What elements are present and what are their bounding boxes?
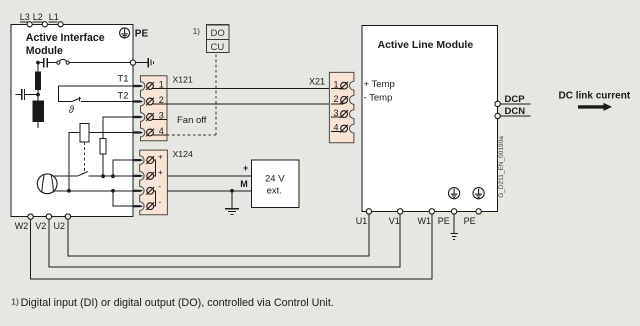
svg-text:3: 3 [159,110,164,120]
wire to earth [136,62,149,64]
thermal contact [72,97,81,102]
wire X124 + to 24V [167,175,251,177]
24V ext box [252,160,300,208]
wire [25,94,38,96]
svg-text:-: - [158,181,161,191]
svg-text:G_D211_EN_00190a: G_D211_EN_00190a [498,136,505,198]
choke L (filled) [35,71,41,90]
wire X121-2 to X21-2 [167,103,344,105]
ground under M [225,209,239,215]
node dot [230,189,234,193]
wire U phase [68,214,369,256]
X121 screw 2 [146,98,154,106]
Active Interface Module box [11,24,133,216]
svg-text:1: 1 [334,79,339,89]
dashed fan-off wire [167,53,216,136]
resistor R1 [100,138,106,154]
terminal W1 [429,209,434,214]
wire stub down [37,122,39,128]
wire T1 [59,86,133,102]
capacitor C1 [44,58,47,67]
wire stub left [16,94,21,96]
terminal PE2 [476,209,481,214]
terminal W2 [28,214,33,219]
svg-text:+ Temp: + Temp [364,79,395,90]
svg-text:M: M [240,179,248,189]
svg-text:U2: U2 [54,221,66,231]
svg-text:24 V: 24 V [265,174,285,185]
wire X124 pin1 branch [113,160,133,176]
wire X124 - to 24V M [167,190,251,192]
earth symbol 2 in ALM [473,188,484,199]
X121 screw 3 [146,113,154,121]
svg-text:+: + [158,167,163,177]
wire X124 pin4 branch [113,191,133,206]
terminal U2 [65,214,70,219]
svg-text:DO: DO [211,28,225,39]
svg-text:L1: L1 [49,12,59,22]
connector X124 block [140,150,168,215]
node dot [67,189,71,193]
wire [102,154,104,176]
wire pin4 row right [89,132,133,134]
fan motor M1 [37,174,57,194]
svg-text:-: - [158,196,161,206]
X121 arrows [133,85,143,134]
svg-text:PE: PE [464,216,476,226]
svg-text:3: 3 [334,108,339,118]
svg-text:DCP: DCP [505,94,526,105]
relay coil K1 [80,124,89,142]
svg-text:L3: L3 [20,12,30,22]
wire contact row [54,175,77,177]
X124 screw 4 [146,202,154,210]
wire pin3 row [103,117,133,138]
svg-text:Module: Module [26,45,63,57]
terminal L3 [20,21,29,23]
svg-text:+: + [158,151,163,161]
wire X121-1 to X21-1 [167,88,344,90]
svg-text:L2: L2 [33,12,43,22]
connector X121 block [141,76,168,141]
svg-text:2: 2 [334,94,339,104]
capacitor C2 [22,89,25,100]
wire [89,175,134,177]
svg-text:ext.: ext. [267,186,282,197]
node edge circle [130,60,135,65]
DCP terminal [495,101,500,106]
DCN terminal [495,113,500,118]
wire W phase [31,214,432,279]
svg-text:PE: PE [438,216,450,226]
X124 screw 1 [146,156,154,164]
wire V phase [49,214,400,267]
svg-text:1): 1) [193,27,200,36]
DC link arrow [578,103,612,111]
Active Line Module box [362,26,497,212]
node dot [111,174,115,178]
svg-text:T1: T1 [117,74,128,85]
svg-text:+: + [243,163,248,173]
wire fan lower row [54,190,133,192]
node junction top [36,61,40,65]
svg-text:Digital input (DI) or digital: Digital input (DI) or digital output (DO… [21,297,334,309]
terminal PE1 [451,209,456,214]
svg-text:DC link current: DC link current [559,90,631,101]
earth symbol 1 in ALM [449,188,460,199]
X121 screw 1 [146,82,154,90]
terminal L1 [49,21,58,23]
wire to edge [69,62,133,64]
svg-text:W1: W1 [418,216,432,226]
svg-text:W2: W2 [15,221,28,231]
svg-text:PE: PE [135,28,149,39]
PE symbol U-earth in circle [120,28,130,38]
svg-text:4: 4 [334,122,339,132]
dashed actuator link [83,142,85,173]
terminal V2 [46,214,51,219]
svg-text:4: 4 [159,126,164,136]
svg-text:V1: V1 [389,216,400,226]
terminal U1 [366,209,371,214]
node dot [111,189,115,193]
svg-text:Active Interface: Active Interface [26,32,105,44]
svg-text:U1: U1 [356,216,368,226]
node junction mid [36,93,40,97]
wire T2 [81,101,133,103]
wire [48,62,57,64]
X124 jumper 3-4 [154,191,156,206]
svg-text:X121: X121 [173,75,193,85]
svg-text:T2: T2 [117,90,128,101]
wire pin4 row left [69,133,80,191]
wire to ground [231,191,233,209]
resistor block (filled) [32,100,44,121]
X124 screw 3 [146,187,154,195]
svg-text:Fan off: Fan off [177,115,207,126]
wire PE to ground [453,214,455,233]
svg-text:- Temp: - Temp [364,93,393,104]
X124 arrows [133,159,143,207]
X124 screw 2 [146,172,154,180]
svg-text:1): 1) [11,296,19,306]
wire down from node [37,63,39,72]
node dot [101,174,105,178]
svg-text:ϑ: ϑ [69,105,75,116]
relay contact [77,172,88,177]
svg-text:Active Line Module: Active Line Module [378,39,474,51]
svg-text:DCN: DCN [505,106,526,117]
ground under PE [450,234,458,240]
terminal V1 [398,209,403,214]
wire [37,90,39,100]
terminal L2 [33,21,44,23]
svg-text:X21: X21 [309,76,325,86]
ground external right [148,58,153,67]
connector X21 block [329,72,354,142]
switch contactor S1 [57,59,69,64]
svg-text:X124: X124 [173,149,193,159]
DO CU box [207,25,229,53]
svg-text:V2: V2 [35,221,46,231]
svg-text:1: 1 [159,79,164,89]
wire cap row [38,62,43,64]
svg-text:CU: CU [211,42,225,53]
X124 jumper 1-2 [154,160,156,176]
X121 screw 4 [146,129,154,137]
